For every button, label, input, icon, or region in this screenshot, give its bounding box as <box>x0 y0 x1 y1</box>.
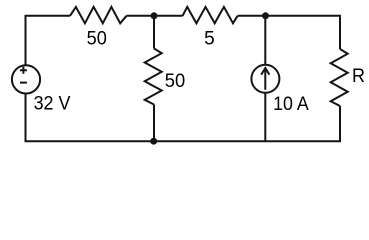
wire: R1 to R2 through node A <box>127 15 183 17</box>
resistor R4 R (right, vertical zigzag) <box>331 49 348 106</box>
wire: top-left corner, V1 top lead to R1 <box>26 16 71 66</box>
svg-text:5: 5 <box>204 29 215 50</box>
resistor R2 5 (top middle, horizontal zigzag) <box>183 7 238 23</box>
wire: R3 down to bottom node <box>153 105 155 142</box>
wire: node A down to R3 <box>153 16 155 49</box>
svg-text:R: R <box>352 66 365 87</box>
voltage source V1 circle <box>12 65 40 93</box>
node A (junction dot at top of R3) <box>151 12 158 19</box>
svg-text:50: 50 <box>87 29 107 50</box>
wire: I1 bottom lead to bottom rail <box>264 93 266 141</box>
V1 minus sign <box>20 82 27 84</box>
V1 plus sign <box>20 67 27 74</box>
resistor R1 50 (top left, horizontal zigzag) <box>70 7 127 23</box>
svg-text:32 V: 32 V <box>34 94 71 115</box>
current source I1 circle <box>251 65 279 93</box>
bottom node (junction dot under R3) <box>150 138 157 145</box>
wire: V1 bottom lead, bottom rail, bottom-right riser to R4 <box>26 94 341 142</box>
resistor R3 50 (middle, vertical zigzag) <box>145 49 162 105</box>
wire: node B down to I1 <box>264 16 266 65</box>
svg-text:10 A: 10 A <box>273 94 309 115</box>
I1 arrow (points up) <box>261 68 269 90</box>
wire: R2 to top-right corner down to R4 through node B <box>238 16 340 49</box>
node B (junction dot at top of I1) <box>262 12 269 19</box>
svg-text:50: 50 <box>165 71 185 92</box>
